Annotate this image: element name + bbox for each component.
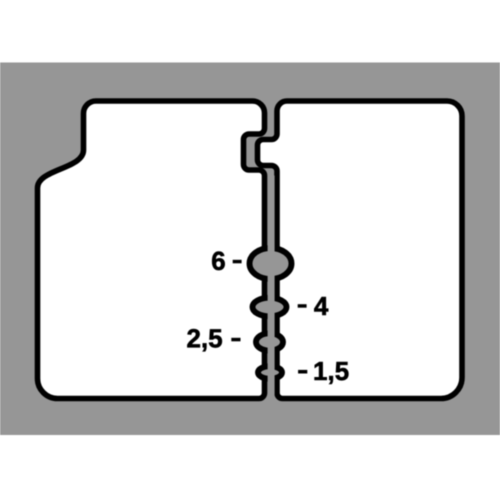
gray backdrop band — [0, 63, 500, 436]
left profile (floor-mat shape with recess) — [38, 101, 265, 399]
label "1,5" digits — [315, 362, 349, 384]
label "4" digit — [314, 297, 328, 315]
bead 6 mm outer ring — [250, 248, 292, 279]
channel gray core band (below tab, through bead rings and bottom edge) — [268, 176, 275, 436]
label "2,5" digits — [187, 329, 222, 351]
label "4" tick dash — [298, 305, 306, 308]
label "2,5" tick dash — [232, 338, 241, 341]
bead 2,5 mm outer ring — [256, 333, 283, 350]
label "6" digit — [212, 252, 225, 271]
bead 1,5 mm outer ring — [258, 366, 282, 379]
label "1,5" tick dash — [298, 370, 307, 373]
right profile (plain panel with tab) — [258, 101, 463, 399]
label "6" tick dash — [233, 260, 241, 263]
bead 4 mm outer ring — [253, 298, 287, 317]
